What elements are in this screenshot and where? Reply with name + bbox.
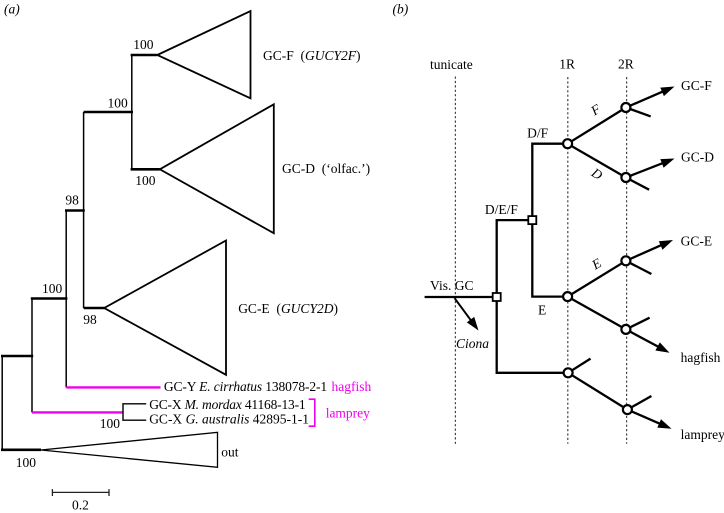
svg-text:tunicate: tunicate [430, 57, 473, 72]
svg-text:lamprey: lamprey [681, 427, 724, 442]
svg-text:hagfish: hagfish [681, 350, 721, 365]
svg-text:lamprey: lamprey [326, 405, 370, 420]
svg-text:100: 100 [135, 173, 156, 188]
svg-text:Vis. GC: Vis. GC [430, 278, 473, 293]
svg-text:100: 100 [133, 37, 154, 52]
svg-text:D/F: D/F [527, 125, 549, 140]
svg-text:hagfish: hagfish [332, 379, 372, 394]
svg-text:100: 100 [16, 455, 37, 470]
svg-text:98: 98 [65, 192, 79, 207]
svg-text:GC-D: GC-D [681, 149, 714, 164]
svg-text:2R: 2R [618, 57, 634, 72]
svg-text:GC-E (GUCY2D): GC-E (GUCY2D) [238, 301, 338, 316]
svg-text:E: E [538, 303, 546, 318]
svg-text:100: 100 [100, 416, 121, 431]
svg-text:1R: 1R [559, 57, 575, 72]
svg-text:(b): (b) [393, 1, 409, 16]
svg-text:0.2: 0.2 [72, 498, 89, 513]
svg-text:D/E/F: D/E/F [485, 202, 518, 217]
svg-text:GC-Y E. cirrhatus 138078-2-1: GC-Y E. cirrhatus 138078-2-1 [164, 379, 327, 394]
svg-text:GC-F (GUCY2F): GC-F (GUCY2F) [263, 48, 361, 63]
svg-text:GC-F: GC-F [681, 78, 712, 93]
svg-text:(a): (a) [4, 1, 20, 16]
svg-text:100: 100 [42, 281, 63, 296]
svg-text:Ciona: Ciona [456, 336, 489, 351]
svg-text:100: 100 [108, 96, 129, 111]
svg-text:GC-E: GC-E [681, 233, 713, 248]
svg-text:out: out [221, 444, 239, 459]
svg-text:GC-D (‘olfac.’): GC-D (‘olfac.’) [282, 161, 370, 176]
svg-text:98: 98 [83, 312, 97, 327]
svg-text:GC-X G. australis 42895-1-1: GC-X G. australis 42895-1-1 [149, 411, 309, 426]
svg-text:GC-X M. mordax 41168-13-1: GC-X M. mordax 41168-13-1 [149, 397, 305, 412]
